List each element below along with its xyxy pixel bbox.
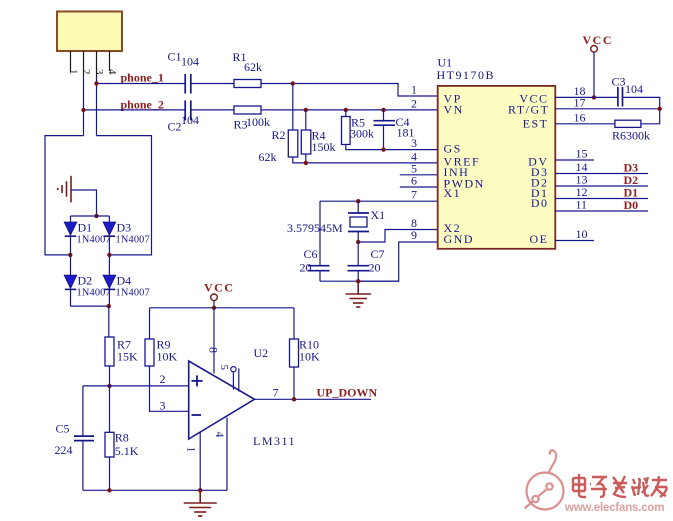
VCC power symbol circle [591,46,598,53]
wire VCC stem to pin18 [593,52,595,97]
svg-text:1: 1 [67,69,79,75]
junction R4 top [304,108,308,112]
junction R5 top [344,108,348,112]
connector pin 2 stub [83,51,85,76]
wire pin16 row to R6 [555,123,615,125]
svg-text:D1: D1 [78,221,93,235]
wire R9 bottom to pin3 row [150,366,189,411]
wire D1 anode [70,216,72,222]
junction crystal bottom [356,240,360,244]
svg-text:EST: EST [523,117,549,131]
svg-text:7: 7 [273,386,279,400]
svg-text:11: 11 [576,198,588,212]
svg-text:C1: C1 [168,50,182,64]
junction R7 / pin2 row [107,384,111,388]
diode D1 [64,222,76,236]
svg-text:HT9170B: HT9170B [437,68,496,82]
svg-text:20: 20 [300,261,312,275]
svg-text:3: 3 [93,69,105,75]
wire pin2 vertical to bridge [83,76,85,136]
connector pin 4 stub [109,51,111,71]
svg-text:C3: C3 [612,75,626,89]
svg-text:10K: 10K [299,350,320,364]
capacitor C6 [308,266,330,282]
resistor R6 [615,120,641,127]
connector pin 1 stub [70,51,72,72]
svg-text:C7: C7 [371,247,385,261]
wire R5 bottom to pin3 row (GS) [346,145,438,150]
svg-text:1: 1 [185,447,199,453]
capacitor C7 [348,242,370,281]
svg-text:LM311: LM311 [253,434,296,448]
junction output / R10 [292,397,296,401]
wire VCC rail [150,307,295,309]
capacitor C2 [185,100,191,120]
junction phone_2 / pin2 [81,108,85,112]
svg-text:62k: 62k [244,60,262,74]
junction crystal top [356,199,360,203]
connector pin 3 stub [96,51,98,76]
wire pin14 row (D3) [555,173,648,175]
resistor R8 [105,432,114,457]
ground (below C6/C7) [346,281,372,307]
wire R1 to U1 pin1 with jog [261,84,438,97]
wire R2 bottom to pin4 row [293,157,438,163]
wire R4 drop [305,110,307,130]
svg-text:X1: X1 [371,208,386,222]
svg-text:1N4007: 1N4007 [116,288,150,299]
capacitor C5 [74,436,94,490]
wire phone_1 to C1 [97,83,186,85]
connector J1 body [57,12,122,52]
svg-text:D0: D0 [624,198,639,212]
svg-text:5.1K: 5.1K [115,444,139,458]
op-amp U1 chip HT9170B body [438,86,556,249]
pin 5 terminal (U2) [231,367,236,390]
wire R7 bottom to pin2 row [109,366,111,386]
wire op-amp pin1 [199,432,201,491]
wire R3 to U1 pin2 (VN row) [261,109,438,111]
capacitor C1 [185,74,191,94]
svg-text:C5: C5 [56,422,70,436]
crystal X1 [348,201,369,242]
svg-text:1N4007: 1N4007 [116,235,150,246]
ground (telephone line, rotated) [58,176,71,203]
svg-text:R2: R2 [272,128,286,142]
svg-text:RT/GT: RT/GT [508,103,549,117]
wire phone_2 to C2 [84,109,186,111]
wire bridge output to R7 [108,306,110,337]
svg-text:OE: OE [530,232,549,246]
wire R2 drop from phone_1 [292,84,294,131]
junction VCC rail [212,306,216,310]
diode D2 [64,275,76,289]
junction R1/R2 [291,81,295,85]
svg-text:7: 7 [411,188,417,202]
svg-text:4: 4 [106,69,118,75]
wire U1 pin9 (GND) jog [358,242,438,281]
resistor R5 [342,117,351,145]
resistor R4 [301,130,311,154]
wire crystal ground rail [320,280,399,282]
wire bridge top edge right [97,136,152,255]
svg-text:D2: D2 [78,274,93,288]
svg-text:8: 8 [207,347,221,353]
watermark text 电子发烧友 (stroke approximation) [573,474,667,497]
svg-text:104: 104 [181,55,199,69]
wire op-amp output [255,398,372,400]
svg-text:D3: D3 [117,221,132,235]
wire op-amp pin2 row [83,385,189,387]
wire U1 pin8 (X2) jog [358,230,438,243]
svg-text:1: 1 [411,83,417,97]
wire ground to diode top rail [71,190,97,216]
resistor R10 [290,339,299,367]
svg-text:300k: 300k [350,127,374,141]
svg-text:C2: C2 [168,120,182,134]
junction VCC / pin18 [592,95,596,99]
wire D1 cathode to junction [70,236,72,255]
VCC power symbol circle (op-amp) [211,294,218,301]
junction bridge output [107,304,111,308]
wire D3 cathode to junction [108,236,110,255]
junction D3/D4 [107,253,111,257]
wire D4 cathode to bottom rail [108,289,110,306]
wire C2 to R3 [191,109,234,111]
wire U1 pin5 stub [400,174,438,176]
junction R4 bottom [304,161,308,165]
wire VCC stem to rail [213,301,215,308]
wire D4 anode [108,255,110,275]
wire rail to R9 [149,308,151,339]
wire D2 cathode to bottom rail [71,289,109,306]
wire left crystal branch down to C6 [319,201,321,266]
svg-text:3.579545M: 3.579545M [287,221,343,235]
wire U1 pin7 row (X1) [320,200,438,202]
junction C4 bottom [381,147,385,151]
wire pin8 from VCC rail to op-amp [213,308,215,374]
svg-text:224: 224 [55,443,73,457]
wire D3 anode [108,216,110,222]
junction pin17 / feedback [658,107,662,111]
wire pin18 row left of C3 [555,96,618,98]
junction pin1 / bottom rail [198,488,202,492]
svg-text:5: 5 [218,365,230,371]
svg-text:9: 9 [411,228,417,242]
wire bottom rail [83,489,227,491]
svg-text:UP_DOWN: UP_DOWN [317,386,378,400]
svg-text:C6: C6 [304,247,318,261]
wire bridge top edge left [45,136,84,255]
svg-text:10: 10 [576,227,588,241]
ground (op-amp) [184,490,217,516]
svg-text:D0: D0 [531,196,549,210]
resistor R9 [145,339,154,366]
wire D2 anode [70,255,72,275]
wire pin15 stub [555,159,594,161]
svg-text:16: 16 [574,110,586,124]
wire pin3 vertical to bridge [96,76,98,136]
svg-text:62k: 62k [259,150,277,164]
svg-text:10K: 10K [157,350,178,364]
svg-text:2: 2 [80,69,92,75]
capacitor C4 [374,110,396,150]
svg-text:R6300k: R6300k [612,129,650,143]
svg-text:phone_1: phone_1 [121,71,164,85]
svg-text:3: 3 [160,399,166,413]
svg-text:VCC: VCC [583,33,614,47]
svg-text:VCC: VCC [204,281,235,295]
wire R4 bottom [305,154,307,163]
resistor R2 [288,130,298,157]
wire R8 top [109,386,111,432]
wire R8 bottom [109,457,111,490]
wire C5 branch down [82,386,84,436]
junction ground rail [356,279,360,283]
svg-text:17: 17 [574,95,586,109]
svg-text:15K: 15K [117,350,138,364]
svg-text:104: 104 [625,82,643,96]
svg-text:D4: D4 [117,274,132,288]
capacitor C3 [618,87,623,107]
wire pin13 row (D2) [555,185,648,187]
wire D1-D3 top rail [71,215,110,217]
junction D1/D2 [68,253,72,257]
svg-text:4: 4 [213,432,227,438]
resistor R7 [105,337,114,366]
wire pin11 row (D0) [555,210,648,212]
svg-text:104: 104 [181,113,199,127]
svg-text:GND: GND [444,232,475,246]
wire pin17 row [555,108,659,110]
svg-text:www.elecfans.com: www.elecfans.com [564,502,664,514]
wire pin10 stub [555,240,594,242]
op-amp U2 triangle [189,361,255,439]
wire R10 bottom to output [293,367,295,399]
wire C3 right and down [623,97,660,123]
junction phone_1 / pin3 [94,81,98,85]
junction C4 top [381,108,385,112]
svg-text:U2: U2 [254,346,269,360]
wire C1 to R1 [191,83,234,85]
wire U1 pin6 stub [400,186,438,188]
watermark logo circle [525,450,564,509]
svg-text:VN: VN [444,103,464,117]
svg-text:2: 2 [160,372,166,386]
svg-text:3: 3 [411,136,417,150]
pin 6 terminal (U2) [238,368,240,391]
svg-text:20: 20 [369,261,381,275]
svg-text:X1: X1 [444,186,462,200]
wire op-amp pin4 [226,418,228,491]
svg-text:2: 2 [411,96,417,110]
svg-text:GS: GS [444,141,462,155]
diode D3 [103,222,115,236]
wire R10 drop from rail [293,308,295,339]
resistor R3 [234,106,261,114]
junction R8 / bottom rail [107,488,111,492]
svg-text:6: 6 [411,174,417,188]
wire pin12 row (D1) [555,198,648,200]
svg-text:R8: R8 [115,431,129,445]
svg-text:15: 15 [576,147,588,161]
wire R5 drop [345,110,347,117]
resistor R1 [234,80,261,88]
diode D4 [103,275,115,289]
junction diode top rail [94,214,98,218]
svg-text:150k: 150k [312,140,336,154]
svg-text:100k: 100k [246,115,270,129]
